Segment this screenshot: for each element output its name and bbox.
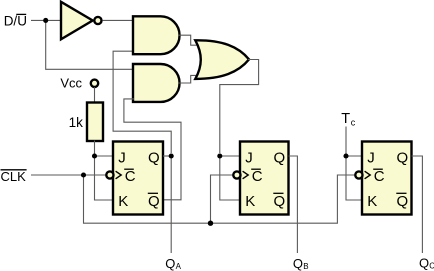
svg-text:D/U: D/U: [4, 14, 27, 29]
node QC output label: [419, 256, 434, 271]
FF1 pin C: [124, 168, 136, 185]
wire inverter output to AND1 input A: [103, 19, 134, 21]
svg-text:Q: Q: [397, 149, 409, 166]
wire QbarA feedback to AND2 input B: [124, 99, 181, 200]
FF3 pin Qbar: [396, 193, 408, 210]
svg-text:Q: Q: [148, 149, 160, 166]
wire FF2 J node to J pin: [220, 155, 241, 157]
svg-text:J: J: [367, 149, 375, 166]
node FF2 J junction: [217, 153, 222, 158]
wire FF2 Q output to QB label: [289, 156, 298, 253]
svg-text:Vcc: Vcc: [60, 76, 82, 91]
wire QA feedback to AND1 input B: [113, 51, 171, 153]
node FF1 Q junction: [169, 153, 174, 158]
wire FF1 Q node down to QA label: [170, 156, 172, 253]
JK flip-flop 1: [106, 142, 163, 215]
svg-text:c: c: [351, 118, 356, 128]
svg-text:C: C: [125, 168, 136, 185]
svg-text:Q: Q: [148, 193, 160, 210]
node D/U input label: [4, 14, 27, 29]
svg-text:C: C: [374, 168, 385, 185]
wire D/U label to inverter input: [31, 19, 62, 21]
svg-text:K: K: [245, 193, 255, 210]
svg-text:T: T: [341, 111, 350, 127]
wire FF1 J node to K pin: [95, 156, 114, 200]
svg-text:Q: Q: [274, 149, 286, 166]
wire CLK to FF1 clock: [31, 174, 106, 176]
wire bus riser to FF2 clock: [211, 175, 233, 223]
wire OR output to FF2 J node: [220, 60, 259, 154]
svg-text:J: J: [118, 149, 126, 166]
svg-text:B: B: [303, 262, 308, 271]
wire AND2 output to OR input B: [179, 75, 198, 83]
wire FF1 Q output to node: [163, 155, 171, 157]
svg-text:C: C: [252, 168, 263, 185]
wire FF1 J node to J pin: [95, 155, 114, 157]
svg-text:J: J: [245, 149, 253, 166]
node CLK input label: [1, 169, 27, 184]
OR gate: [195, 40, 249, 79]
FF1 pin Qbar: [148, 193, 160, 210]
node QA output label: [165, 256, 181, 271]
node CLK bus junction: [208, 221, 213, 226]
wire Tc label to FF3 J node: [345, 127, 347, 157]
Vcc power terminal: [60, 76, 98, 91]
inverter gate: [61, 2, 102, 40]
node FF1 J junction: [92, 153, 97, 158]
svg-text:Q: Q: [165, 256, 175, 271]
AND gate 1: [133, 16, 180, 54]
svg-text:A: A: [176, 262, 182, 271]
wire Vcc terminal to resistor: [94, 87, 96, 103]
FF2 pin Qbar: [273, 193, 285, 210]
wire FF3 J node to J pin: [346, 155, 363, 157]
wire AND1 output to OR input A: [179, 35, 198, 45]
FF3 pin C: [373, 168, 385, 185]
svg-text:CLK: CLK: [1, 169, 27, 184]
wire FF3 J node to K pin: [346, 156, 363, 200]
JK flip-flop 2: [233, 142, 288, 215]
svg-text:Q: Q: [293, 256, 303, 271]
wire FF2 J node to K pin: [220, 156, 241, 200]
wire resistor to FF1 J node: [94, 141, 96, 157]
resistor 1k: [69, 103, 103, 142]
svg-text:C: C: [429, 261, 434, 270]
wire D branch down to AND2 top input: [46, 20, 134, 69]
wire CLK bus to FF3 clock: [84, 175, 355, 223]
svg-text:K: K: [118, 193, 128, 210]
wire FF3 Q output to QC label: [412, 156, 423, 253]
JK flip-flop 3: [355, 142, 411, 215]
AND gate 2: [133, 64, 180, 102]
FF2 pin C: [251, 168, 263, 185]
svg-text:Q: Q: [274, 193, 286, 210]
svg-text:1k: 1k: [69, 115, 84, 130]
node D junction: [43, 18, 48, 23]
node FF3 J junction: [343, 153, 348, 158]
node CLK junction: [81, 172, 86, 177]
node Tc input label: [341, 111, 356, 127]
node QB output label: [293, 256, 309, 271]
svg-text:Q: Q: [397, 193, 409, 210]
svg-text:Q: Q: [419, 256, 429, 271]
svg-text:K: K: [367, 193, 377, 210]
